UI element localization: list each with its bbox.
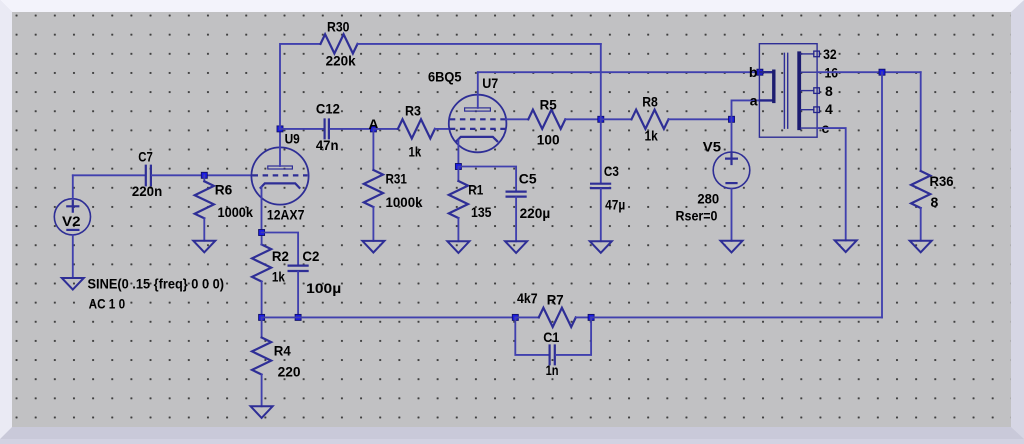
svg-text:135: 135 [471,204,492,220]
ground below R36 [910,241,932,253]
ground below V5 [721,241,743,253]
ground below tap c [835,240,857,252]
svg-text:100µ: 100µ [306,280,341,296]
node C3 top junction [598,116,604,122]
capacitor C1 [515,317,591,378]
wire tap c to ground [817,128,846,240]
node C2 bottom junction [295,314,301,320]
border frame bottom [0,427,1024,439]
wire plate node up to R30 [280,44,321,129]
ground below V2 [62,278,84,290]
transformer tap c [801,127,817,129]
svg-text:a: a [750,93,758,109]
capacitor C5 [458,167,550,242]
wire A to R3 [373,128,398,130]
svg-text:R31: R31 [386,171,408,187]
resistor R4 [252,317,301,406]
svg-text:280: 280 [697,190,719,206]
ground below C3 [590,241,612,253]
ground below C5 [505,241,527,253]
resistor R6 [195,175,253,240]
border frame left [0,0,12,439]
node U7 cathode junction [455,164,461,170]
node 16-line junction [879,69,885,75]
transformer tap 8 [801,90,814,92]
svg-text:100: 100 [537,131,560,147]
svg-text:1k: 1k [409,143,422,159]
svg-text:C3: C3 [604,163,619,179]
wire R30 to C3 top corner [358,43,601,45]
svg-text:R36: R36 [930,173,954,189]
transformer core [784,53,787,128]
wire U7 cathode down [457,140,459,167]
transformer tap 4 [801,109,814,111]
svg-text:1n: 1n [546,362,559,378]
resistor R1 [449,167,492,242]
svg-text:R4: R4 [274,342,291,358]
svg-text:R1: R1 [468,181,483,197]
wire node up to a [732,100,760,119]
capacitor C7 [132,149,162,200]
wire V2 bottom [72,235,74,278]
wire U7 screen to R5 [506,118,529,120]
transformer U6 box [759,44,817,138]
transformer secondary winding [797,53,801,128]
svg-text:220: 220 [278,363,301,379]
ground below R6 [193,241,215,253]
wire R8 to V5 node [669,118,732,120]
svg-text:8: 8 [825,83,833,99]
ground below R31 [362,241,384,253]
wire tap 16 to R36 [817,71,921,73]
wire node to R8 [601,118,632,120]
node R7 left junction [512,314,518,320]
wire feedback bus left [262,316,516,318]
node U9 plate junction [277,126,283,132]
svg-text:C1: C1 [543,329,559,345]
node R2 bottom junction [259,314,265,320]
svg-text:1000k: 1000k [386,194,423,210]
wire bus to feedback vertical [591,316,882,318]
svg-text:1k: 1k [645,127,658,143]
svg-text:SINE(0 .15 {freq} 0 0 0): SINE(0 .15 {freq} 0 0 0) [88,276,225,292]
wire V2 top [72,175,74,198]
svg-text:C5: C5 [519,171,537,187]
capacitor C12 [316,101,340,153]
svg-text:b: b [749,64,758,80]
svg-text:12AX7: 12AX7 [267,207,305,223]
wire U9 cathode down [261,187,263,233]
node R6 top junction [201,172,207,178]
node R8/V5 junction [729,116,735,122]
wire R7 right lead [576,316,591,318]
svg-text:1k: 1k [272,268,285,284]
svg-text:220µ: 220µ [520,205,551,221]
wire V2 to C7 [73,174,145,176]
resistor R36 [911,72,954,241]
wire feedback vertical [881,72,883,317]
resistor R5 [528,96,565,147]
capacitor C3 [591,119,625,241]
wire node to C12 [280,128,324,130]
svg-text:V5: V5 [703,138,721,154]
triode U9 12AX7 [251,129,308,223]
svg-text:R8: R8 [642,93,658,109]
svg-text:AC 1 0: AC 1 0 [89,295,126,311]
voltage source V2 [54,199,90,235]
transformer tap 32 [801,53,814,55]
wire cathode node to C2 [262,233,299,266]
ground below R4 [251,406,273,418]
wire C7 to U9 grid [152,174,252,176]
resistor R2 [252,233,289,318]
svg-text:R7: R7 [547,291,564,307]
svg-text:C7: C7 [138,149,153,165]
transformer primary winding [760,72,774,100]
svg-text:47µ: 47µ [605,196,625,212]
svg-text:U7: U7 [482,75,498,91]
node U9 cathode bottom junction [259,230,265,236]
wire R5 to node [565,118,601,120]
resistor R7 [517,290,576,327]
wire C12 to node A [331,128,374,130]
svg-text:C12: C12 [316,101,340,117]
node b junction [757,69,763,75]
wire U7 plate to b [478,71,760,73]
resistor R31 [364,129,423,241]
svg-text:220k: 220k [326,52,356,68]
svg-text:R5: R5 [540,96,557,112]
svg-text:4k7: 4k7 [517,290,538,306]
svg-text:V2: V2 [62,213,81,229]
node A junction [370,126,376,132]
svg-text:R6: R6 [215,182,233,198]
voltage source V5 [676,119,750,241]
svg-text:4: 4 [825,101,833,117]
svg-text:220n: 220n [132,183,162,199]
svg-text:R30: R30 [327,19,350,35]
capacitor C2 [289,248,342,317]
resistor R8 [632,93,669,143]
svg-text:32: 32 [823,46,837,62]
resistor R3 [398,102,435,159]
resistor R30 [321,19,358,69]
svg-text:8: 8 [931,194,939,210]
ground below R1 [447,241,469,253]
svg-text:C2: C2 [302,248,319,264]
svg-text:R3: R3 [405,102,421,118]
transformer tap 16 [801,71,817,73]
svg-text:1000k: 1000k [218,204,254,220]
svg-text:6BQ5: 6BQ5 [428,69,462,85]
svg-text:47n: 47n [316,137,339,153]
svg-text:R2: R2 [272,248,289,264]
svg-text:U9: U9 [285,131,300,147]
pentode U7 6BQ5 [428,69,506,153]
svg-text:Rser=0: Rser=0 [676,208,718,224]
node R7 right junction [588,314,594,320]
wire R3 to U7 grid [435,128,449,130]
wire top rail down to node [600,44,602,119]
wire R7 left lead [515,316,539,318]
border frame top [0,0,1024,12]
